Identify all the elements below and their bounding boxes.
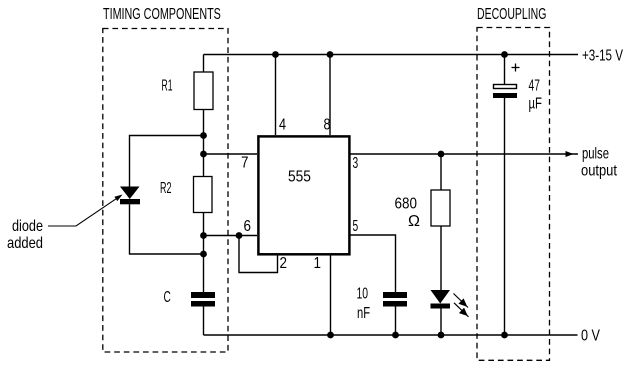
- svg-text:µF: µF: [529, 94, 542, 112]
- svg-text:0 V: 0 V: [581, 327, 600, 345]
- svg-text:diode: diode: [12, 218, 43, 236]
- svg-text:output: output: [581, 162, 617, 180]
- svg-text:8: 8: [324, 116, 331, 134]
- svg-text:2: 2: [280, 255, 287, 272]
- svg-text:Ω: Ω: [408, 213, 420, 230]
- svg-text:6: 6: [244, 218, 251, 235]
- svg-text:3: 3: [353, 154, 359, 172]
- svg-text:4: 4: [279, 116, 286, 134]
- svg-text:+3-15 V: +3-15 V: [582, 46, 624, 64]
- svg-text:1: 1: [314, 255, 321, 272]
- svg-text:5: 5: [353, 217, 359, 235]
- svg-text:pulse: pulse: [582, 143, 609, 161]
- svg-text:10: 10: [357, 284, 369, 302]
- svg-text:C: C: [164, 288, 172, 306]
- svg-text:680: 680: [395, 196, 417, 213]
- svg-text:7: 7: [241, 155, 248, 172]
- svg-text:DECOUPLING: DECOUPLING: [477, 5, 546, 23]
- svg-text:TIMING COMPONENTS: TIMING COMPONENTS: [103, 5, 221, 23]
- svg-text:47: 47: [529, 76, 540, 94]
- svg-text:555: 555: [288, 168, 311, 186]
- svg-text:R1: R1: [162, 76, 173, 95]
- svg-text:R2: R2: [160, 178, 171, 197]
- svg-text:added: added: [7, 235, 43, 253]
- svg-text:nF: nF: [357, 303, 370, 322]
